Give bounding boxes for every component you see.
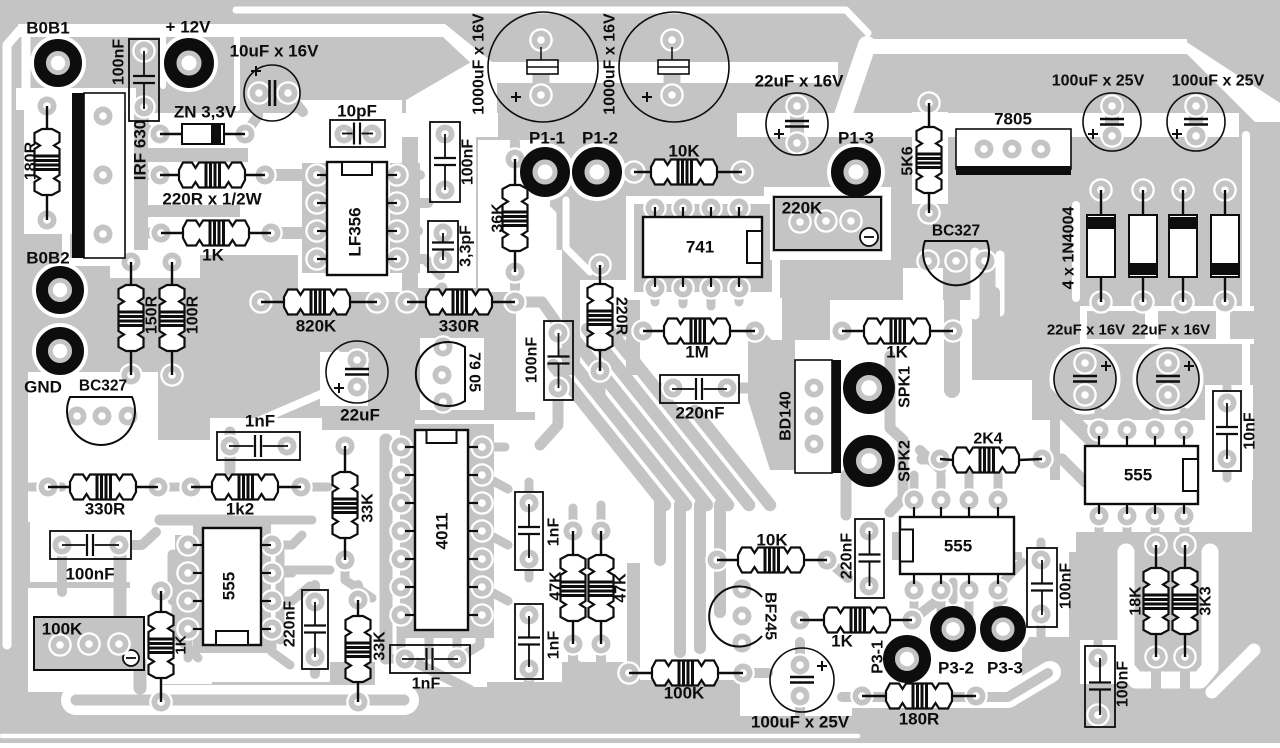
pad junction (107, 533, 131, 557)
wire (1095, 516, 1104, 538)
pad junction (389, 463, 413, 487)
svg-text:180R: 180R (899, 710, 940, 729)
pad junction (1144, 645, 1168, 669)
pad junction (1184, 124, 1208, 148)
resistor 180R_b (862, 695, 886, 697)
resistor 3K3 (1184, 545, 1186, 568)
pad junction (176, 617, 200, 641)
wire (695, 411, 770, 505)
pad junction (470, 519, 494, 543)
resistor 2K4 (940, 459, 953, 460)
resistor 220R_v (599, 265, 601, 284)
wire (397, 170, 420, 180)
pad SPK1 (856, 375, 882, 401)
pad junction (431, 248, 455, 272)
svg-text:P1-3: P1-3 (838, 129, 874, 148)
svg-text:330R: 330R (439, 317, 480, 336)
wire (694, 505, 706, 648)
pad junction (445, 647, 469, 671)
wire (230, 516, 312, 525)
resistor 1M (643, 330, 664, 332)
wire (1094, 642, 1103, 658)
wire (120, 555, 140, 688)
pad junction (715, 376, 739, 400)
pad junction (814, 209, 838, 233)
pad junction (260, 533, 284, 557)
pad junction (986, 488, 1010, 512)
wire (553, 365, 665, 505)
pad junction (546, 376, 570, 400)
diode D2 1N4004 (1142, 190, 1144, 215)
regulator 7905 (416, 342, 465, 406)
svg-text:100K: 100K (42, 620, 83, 639)
capacitor 1nF_h (217, 432, 300, 460)
pad junction (119, 250, 143, 274)
wire (48, 483, 62, 492)
pad junction (588, 253, 612, 277)
pad junction (1086, 646, 1110, 670)
svg-text:22uF: 22uF (340, 406, 380, 425)
resistor 100R (171, 262, 173, 285)
pad junction (517, 603, 541, 627)
pad junction (249, 290, 273, 314)
pad junction (345, 375, 369, 399)
wire (457, 620, 480, 659)
wire (401, 655, 470, 690)
pad junction (529, 83, 553, 107)
svg-text:P1-1: P1-1 (529, 129, 565, 148)
electrolytic capacitor C_1000uF_2 (619, 12, 729, 122)
pad junction (1156, 351, 1180, 375)
wire (175, 548, 185, 640)
wire (310, 585, 320, 602)
svg-text:7805: 7805 (994, 110, 1032, 129)
pad junction (1073, 351, 1097, 375)
pad junction (671, 276, 695, 300)
pad junction (917, 201, 941, 225)
svg-text:100nF: 100nF (1115, 661, 1132, 707)
wire (276, 545, 285, 640)
wire (407, 288, 442, 302)
pad junction (333, 434, 357, 458)
wire (529, 669, 558, 712)
capacitor 100nF_mid (544, 321, 573, 400)
pad GND (48, 339, 72, 363)
svg-text:22uF x 16V: 22uF x 16V (1047, 322, 1125, 339)
wire (353, 700, 363, 702)
wire (576, 341, 707, 505)
svg-text:100uF x 25V: 100uF x 25V (751, 713, 850, 732)
wire (176, 573, 198, 658)
wire (770, 439, 793, 449)
pad junction (1029, 137, 1053, 161)
wire (597, 505, 606, 531)
wire (288, 93, 303, 112)
wire (397, 226, 418, 236)
pad junction (433, 178, 457, 202)
resistor 10K_a (634, 171, 651, 173)
pad junction (259, 221, 283, 245)
pad BOB2 (48, 278, 72, 302)
wire (184, 629, 193, 658)
pad junction (850, 684, 874, 708)
pad junction (902, 578, 926, 602)
svg-text:BF245: BF245 (762, 592, 779, 640)
diode ZN 3,3V (160, 133, 182, 135)
pad junction (622, 160, 646, 184)
pad junction (149, 221, 173, 245)
transistor BC327_right (923, 241, 989, 285)
wire (144, 107, 158, 134)
pad junction (1215, 391, 1239, 415)
svg-text:BD140: BD140 (778, 391, 795, 441)
pad junction (839, 209, 863, 233)
wire (1105, 106, 1119, 136)
pad junction (503, 260, 527, 284)
pad junction (160, 363, 184, 387)
wire (1040, 388, 1092, 440)
resistor 180R_a (46, 106, 48, 129)
wire (1095, 412, 1104, 430)
wire (301, 483, 328, 492)
pad junction (470, 547, 494, 571)
svg-text:P1-2: P1-2 (582, 129, 618, 148)
wire (735, 288, 744, 302)
resistor 18K (1155, 545, 1157, 568)
wire (727, 383, 792, 394)
resistor 1k2 (191, 486, 212, 488)
svg-text:100nF: 100nF (111, 39, 128, 85)
regulator 7805 (956, 129, 1071, 169)
pad junction (360, 122, 384, 146)
svg-text:79 05: 79 05 (466, 352, 483, 392)
pad junction (431, 335, 455, 359)
IC 741 (643, 217, 762, 277)
svg-text:1K: 1K (886, 343, 908, 362)
pad junction (1100, 94, 1124, 118)
pad junction (1073, 383, 1097, 407)
diode D1 1N4004 (1100, 190, 1102, 215)
wire (119, 532, 156, 545)
pad P1-2 (585, 160, 610, 185)
pad junction (727, 276, 751, 300)
pad junction (393, 647, 417, 671)
wire (1151, 412, 1160, 430)
pad junction (1215, 447, 1239, 471)
wire (540, 388, 558, 445)
wire (158, 483, 178, 492)
pad junction (430, 363, 454, 387)
svg-text:10uF x 16V: 10uF x 16V (230, 42, 319, 61)
pad junction (1100, 124, 1124, 148)
pad junction (146, 475, 170, 499)
pad junction (986, 578, 1010, 602)
pad junction (972, 137, 996, 161)
wire (622, 326, 643, 337)
svg-text:P3-1: P3-1 (870, 640, 887, 674)
pad junction (176, 533, 200, 557)
capacitor 10pF (330, 120, 385, 147)
pad junction (671, 196, 695, 220)
pad junction (90, 404, 114, 428)
pad junction (176, 589, 200, 613)
wire (795, 696, 805, 716)
resistor 36K (514, 159, 516, 185)
pad junction (470, 435, 494, 459)
pad junction (1143, 418, 1167, 442)
pad junction (107, 632, 131, 656)
wire (569, 508, 578, 531)
wire (1223, 459, 1232, 478)
pad junction (631, 319, 655, 343)
pad junction (305, 191, 329, 215)
wire (920, 450, 941, 470)
pad junction (260, 589, 284, 613)
wire (651, 288, 660, 302)
svg-text:10nF: 10nF (1242, 412, 1259, 450)
pad junction (1089, 178, 1113, 202)
wire (944, 292, 960, 390)
svg-text:100nF: 100nF (1058, 563, 1075, 609)
pad junction (788, 653, 812, 677)
pad P3-2 (942, 618, 965, 641)
pad junction (365, 290, 389, 314)
capacitor 220nF_h (660, 375, 739, 403)
svg-text:+ 12V: + 12V (166, 18, 212, 37)
pad junction (731, 661, 755, 685)
svg-text:BC327: BC327 (79, 378, 127, 395)
wire (596, 644, 606, 662)
pad junction (973, 249, 997, 273)
pad junction (561, 519, 585, 543)
wire (168, 555, 179, 600)
pad junction (1115, 504, 1139, 528)
pad junction (660, 28, 684, 52)
pad +12V (177, 51, 202, 76)
wire (397, 259, 440, 275)
wire (827, 560, 848, 578)
pad junction (788, 684, 812, 708)
pad junction (1156, 383, 1180, 407)
pad junction (964, 684, 988, 708)
pad junction (149, 579, 173, 603)
pad junction (385, 219, 409, 243)
wire (380, 440, 393, 658)
pad junction (561, 632, 585, 656)
wire (265, 169, 317, 181)
pad junction (91, 104, 115, 128)
pad junction (1087, 418, 1111, 442)
wire (912, 600, 938, 620)
wire (937, 475, 946, 500)
pad junction (1143, 504, 1167, 528)
pad junction (179, 475, 203, 499)
svg-text:18K: 18K (1128, 586, 1145, 616)
pad junction (35, 208, 59, 232)
wire (990, 292, 1000, 345)
wire (482, 475, 508, 489)
svg-text:B0B1: B0B1 (26, 19, 69, 38)
pad junction (385, 247, 409, 271)
wire (482, 443, 505, 452)
pad junction (253, 163, 277, 187)
svg-text:36K: 36K (490, 203, 507, 233)
wire (772, 411, 793, 421)
svg-text:GND: GND (24, 378, 62, 397)
pad junction (917, 91, 941, 115)
svg-text:4011: 4011 (433, 513, 452, 550)
wire (1180, 516, 1189, 538)
pad junction (617, 661, 641, 685)
pad junction (815, 548, 839, 572)
pad junction (275, 434, 299, 458)
svg-text:330R: 330R (85, 500, 126, 519)
capacitor 1nF_b (390, 645, 470, 673)
pad junction (132, 95, 156, 119)
wire (658, 383, 673, 393)
wire (388, 655, 405, 664)
wire (1123, 412, 1132, 430)
svg-text:3K3: 3K3 (1198, 586, 1215, 615)
electrolytic capacitor C_100uF25_b (1167, 93, 1225, 151)
wire (525, 482, 534, 503)
svg-text:220nF: 220nF (675, 404, 724, 423)
pad junction (916, 249, 940, 273)
wire (664, 40, 681, 95)
svg-text:B0B2: B0B2 (26, 249, 69, 268)
svg-text:100uF x 25V: 100uF x 25V (1172, 73, 1265, 90)
svg-text:10K: 10K (668, 142, 700, 161)
pad junction (1173, 533, 1197, 557)
svg-text:1M: 1M (685, 343, 709, 362)
wire (910, 475, 919, 500)
capacitor 100nF_c1 (430, 122, 460, 202)
wire (272, 569, 292, 578)
pad junction (132, 39, 156, 63)
wire (525, 559, 534, 578)
pad junction (1171, 290, 1195, 314)
wire (610, 668, 629, 678)
wire (842, 673, 1048, 697)
pad junction (1131, 178, 1155, 202)
pad junction (785, 131, 809, 155)
svg-text:1000uF x 16V: 1000uF x 16V (602, 13, 619, 115)
pad junction (470, 491, 494, 515)
svg-text:1k2: 1k2 (226, 500, 254, 519)
pad junction (1029, 602, 1053, 626)
resistor 1K_a (161, 232, 183, 234)
pad junction (660, 83, 684, 107)
resistor 330R_b (48, 486, 70, 488)
svg-text:4 x 1N4004: 4 x 1N4004 (1061, 207, 1078, 290)
wire (770, 383, 793, 393)
svg-text:P3-2: P3-2 (938, 659, 974, 678)
pad junction (389, 491, 413, 515)
wire (790, 106, 804, 143)
wire (1180, 412, 1189, 430)
pad junction (928, 447, 952, 471)
pad junction (503, 290, 527, 314)
pad junction (1172, 504, 1196, 528)
wire (1037, 542, 1046, 560)
pad junction (289, 475, 313, 499)
pad junction (385, 191, 409, 215)
pad junction (395, 290, 419, 314)
svg-text:10K: 10K (756, 531, 788, 550)
wire (150, 228, 161, 239)
wire (515, 302, 556, 322)
wire (397, 620, 406, 655)
pad junction (389, 519, 413, 543)
svg-text:100uF x 25V: 100uF x 25V (1052, 73, 1145, 90)
transistor BF245 (709, 587, 762, 647)
pad junction (91, 163, 115, 187)
pad junction (218, 434, 242, 458)
pad junction (389, 435, 413, 459)
pad junction (303, 590, 327, 614)
electrolytic capacitor C_22uF_top (766, 93, 828, 155)
wire (265, 597, 280, 606)
wire (1223, 387, 1232, 403)
pad junction (345, 348, 369, 372)
pad junction (902, 488, 926, 512)
IC 555_l (203, 528, 261, 645)
pad junction (247, 81, 271, 105)
pad junction (785, 94, 809, 118)
svg-text:555: 555 (1124, 466, 1152, 485)
wire (225, 432, 236, 470)
resistor 820K (261, 301, 284, 303)
wire (272, 586, 310, 601)
pad junction (305, 163, 329, 187)
svg-text:47K: 47K (613, 573, 630, 603)
pad junction (305, 247, 329, 271)
pad junction (470, 463, 494, 487)
pad junction (149, 690, 173, 714)
electrolytic capacitor C_1000uF_1 (488, 12, 598, 122)
pad junction (116, 404, 140, 428)
pad junction (643, 276, 667, 300)
pad junction (346, 588, 370, 612)
pad junction (730, 631, 754, 655)
pad junction (900, 608, 924, 632)
pad junction (35, 94, 59, 118)
pad junction (48, 633, 72, 657)
pad junction (788, 608, 812, 632)
wire (994, 475, 1003, 500)
wire (674, 505, 686, 652)
svg-text:P3-3: P3-3 (987, 659, 1023, 678)
wire (1151, 657, 1161, 700)
wire (1151, 516, 1160, 538)
svg-text:1K: 1K (202, 246, 224, 265)
pad junction (305, 219, 329, 243)
resistor 5K6 (928, 103, 930, 127)
pad junction (470, 575, 494, 599)
svg-text:33K: 33K (360, 493, 377, 523)
pad P3-1 (895, 647, 919, 671)
pad junction (517, 547, 541, 571)
pad P1-1 (533, 160, 558, 185)
pad junction (160, 250, 184, 274)
wire (937, 590, 946, 615)
IC LF356 (327, 162, 387, 275)
pad junction (389, 547, 413, 571)
wire (57, 545, 67, 592)
pad junction (1030, 447, 1054, 471)
pad junction (957, 578, 981, 602)
pad junction (119, 363, 143, 387)
